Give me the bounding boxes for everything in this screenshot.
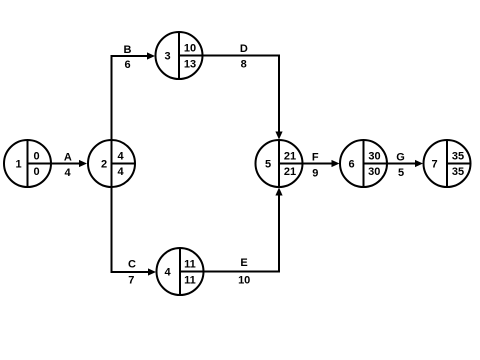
- svg-text:4: 4: [117, 166, 124, 178]
- arrowhead E into node 5 bottom: [275, 188, 282, 196]
- svg-text:35: 35: [452, 151, 464, 163]
- svg-text:35: 35: [452, 166, 464, 178]
- node 4 vertical divider: [179, 248, 181, 296]
- arrowhead G into node 7: [415, 160, 423, 167]
- svg-text:B: B: [124, 44, 132, 56]
- svg-text:1: 1: [15, 159, 21, 171]
- arrowhead D into node 5 top: [275, 132, 282, 140]
- svg-text:21: 21: [284, 166, 296, 178]
- node 7 dividers: [447, 140, 471, 188]
- svg-text:30: 30: [368, 166, 380, 178]
- node 4 circle: [157, 248, 204, 295]
- svg-text:F: F: [312, 152, 319, 164]
- node 6 circle: [340, 140, 387, 187]
- node 2 horizontal divider: [112, 163, 136, 165]
- node 3 vertical divider: [178, 32, 180, 80]
- svg-text:A: A: [64, 152, 72, 164]
- wire E (activity E, duration 10): [180, 195, 279, 272]
- svg-text:4: 4: [117, 151, 124, 163]
- svg-text:E: E: [240, 257, 247, 269]
- svg-text:30: 30: [368, 151, 380, 163]
- svg-text:5: 5: [398, 167, 404, 179]
- node 5 circle: [256, 140, 303, 187]
- svg-text:7: 7: [431, 159, 437, 171]
- svg-text:D: D: [240, 43, 248, 55]
- svg-text:4: 4: [164, 267, 171, 279]
- svg-text:G: G: [396, 152, 405, 164]
- svg-text:9: 9: [312, 167, 318, 179]
- wire B (activity B, duration 6): [111, 55, 149, 57]
- svg-text:7: 7: [128, 274, 134, 286]
- svg-text:13: 13: [184, 59, 196, 71]
- arrowhead A into node 2: [79, 160, 87, 167]
- wire A (activity A, duration 4): [28, 163, 81, 165]
- arrowhead B into node 3: [147, 52, 155, 59]
- wire D (activity D, duration 8): [179, 56, 279, 133]
- arrowhead C into node 4: [148, 268, 156, 275]
- svg-text:2: 2: [101, 159, 107, 171]
- node 5 vertical divider: [278, 140, 280, 188]
- node 7 circle: [424, 140, 471, 187]
- svg-text:6: 6: [348, 159, 354, 171]
- svg-text:C: C: [128, 259, 136, 271]
- svg-text:10: 10: [184, 43, 196, 55]
- wire vertical through node 2 (to B and C): [111, 56, 113, 272]
- svg-text:8: 8: [241, 58, 247, 70]
- svg-text:11: 11: [184, 259, 196, 271]
- node 1 dividers: [27, 140, 29, 188]
- arrowhead F into node 6: [332, 160, 340, 167]
- node 6 vertical divider: [363, 140, 365, 188]
- svg-text:10: 10: [238, 274, 250, 286]
- svg-text:11: 11: [184, 275, 196, 287]
- svg-text:5: 5: [265, 159, 271, 171]
- svg-text:0: 0: [33, 151, 39, 163]
- wire C (activity C, duration 7): [111, 271, 150, 273]
- wire G (activity G, duration 5): [364, 163, 417, 165]
- node 2 circle: [88, 140, 135, 187]
- node 3 circle: [156, 32, 203, 79]
- node 1 circle: [4, 140, 51, 187]
- svg-text:4: 4: [65, 167, 72, 179]
- svg-text:6: 6: [124, 59, 130, 71]
- svg-text:3: 3: [164, 51, 170, 63]
- svg-text:0: 0: [33, 166, 39, 178]
- svg-text:21: 21: [284, 151, 296, 163]
- wire F (activity F, duration 9): [279, 163, 333, 165]
